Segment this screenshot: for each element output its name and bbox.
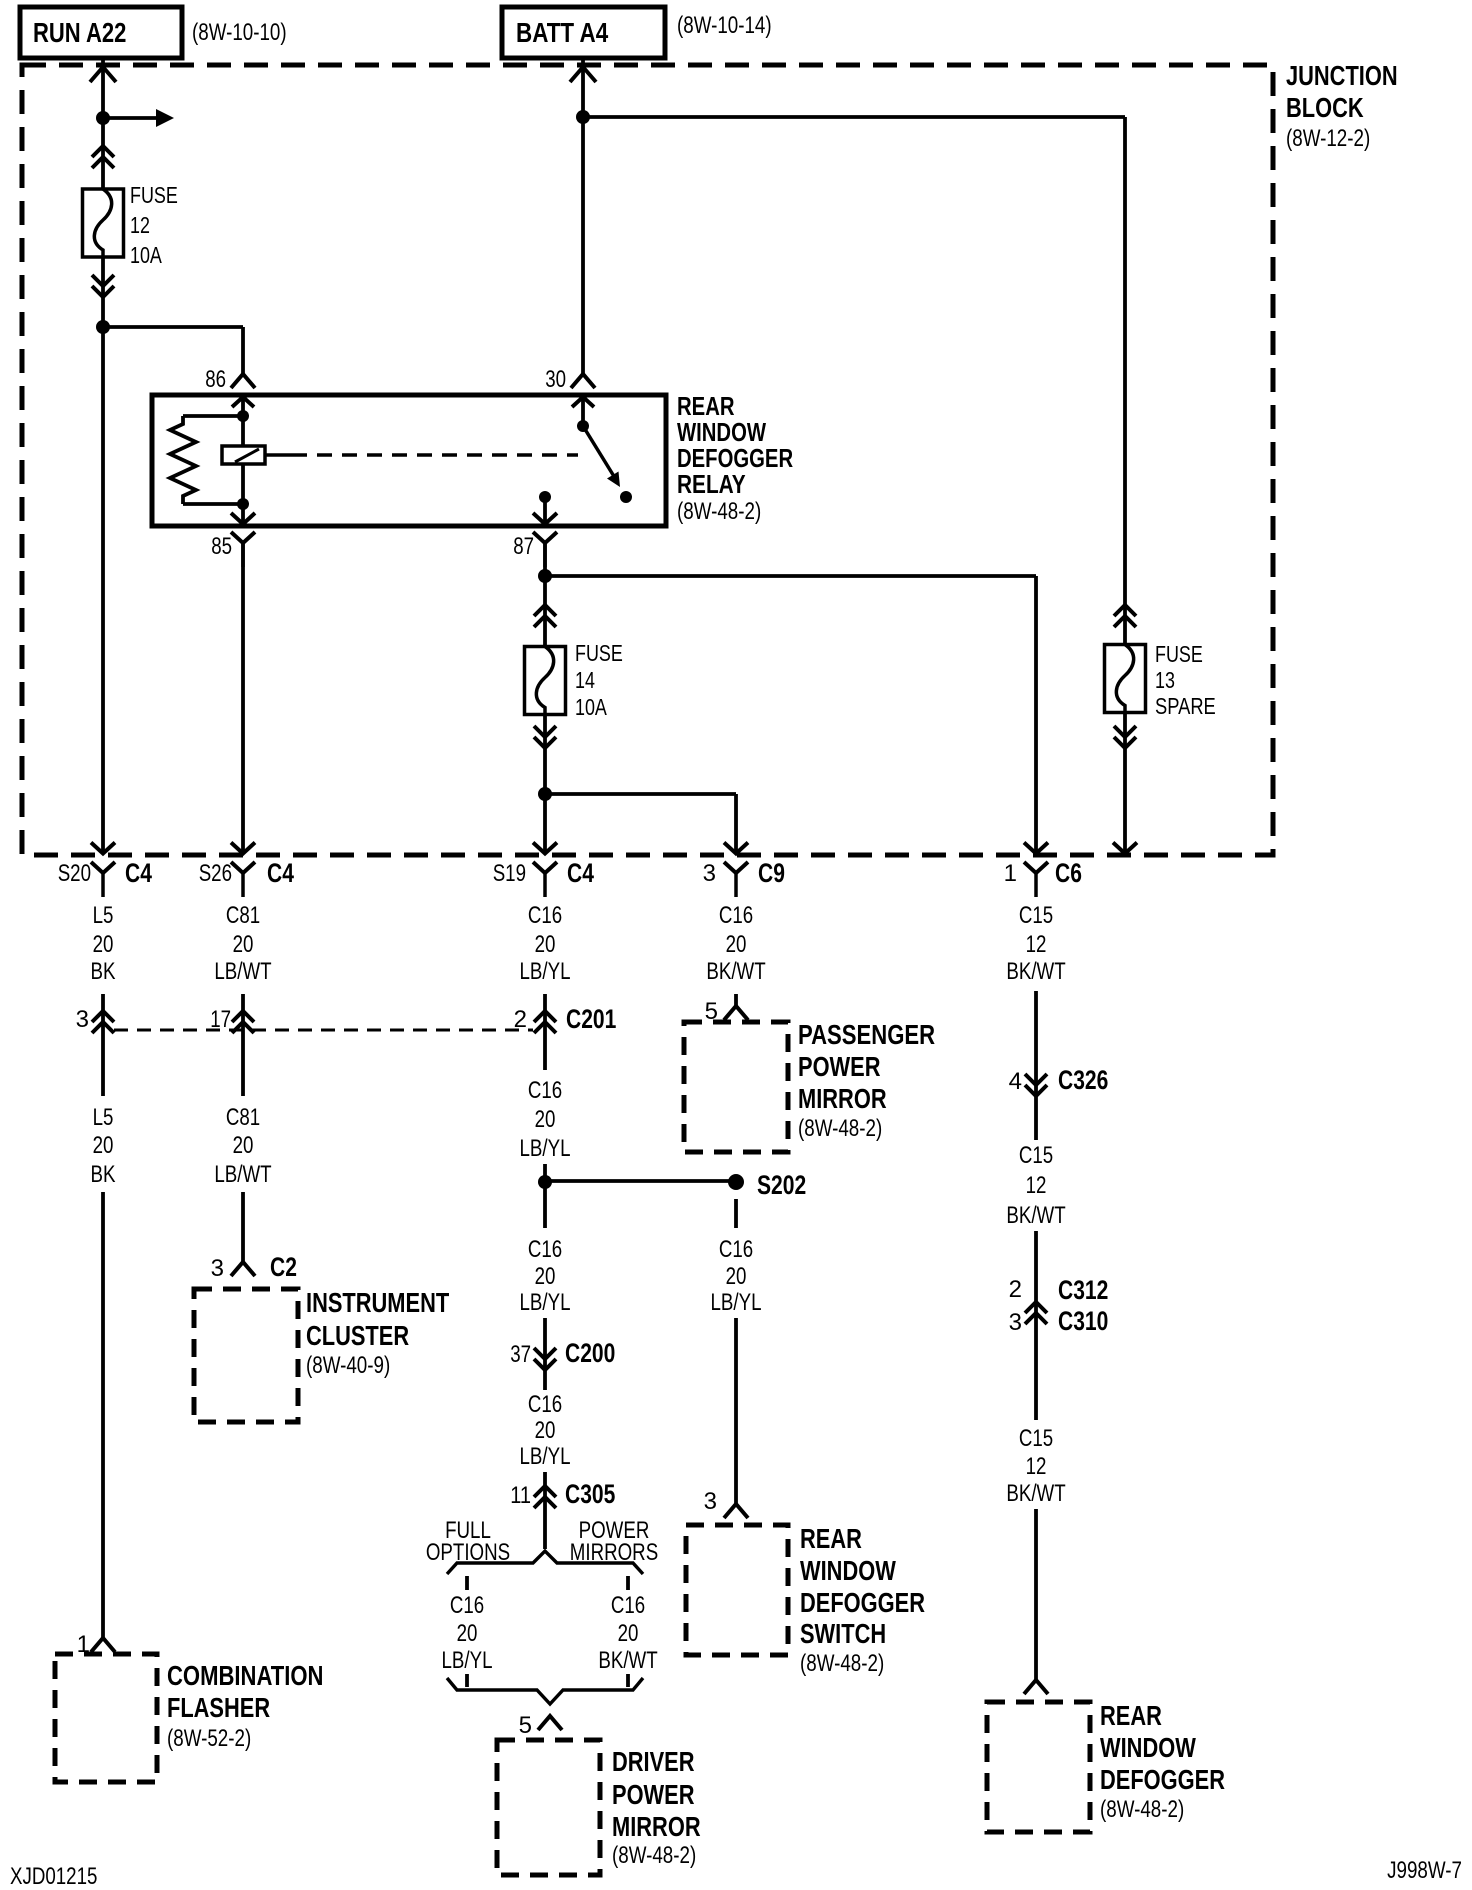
svg-text:12: 12 bbox=[1026, 1172, 1047, 1199]
svg-text:LB/WT: LB/WT bbox=[214, 1161, 271, 1188]
svg-text:3: 3 bbox=[1009, 1309, 1022, 1336]
svg-text:20: 20 bbox=[535, 1417, 556, 1444]
svg-text:87: 87 bbox=[513, 533, 534, 560]
svg-text:12: 12 bbox=[1026, 1453, 1047, 1480]
svg-text:REAR: REAR bbox=[1100, 1700, 1162, 1731]
svg-text:(8W-48-2): (8W-48-2) bbox=[612, 1842, 696, 1869]
svg-text:L5: L5 bbox=[93, 902, 114, 929]
svg-text:BATT A4: BATT A4 bbox=[516, 17, 609, 48]
svg-text:WINDOW: WINDOW bbox=[800, 1555, 896, 1586]
svg-text:14: 14 bbox=[575, 667, 595, 693]
svg-text:C15: C15 bbox=[1019, 902, 1053, 929]
svg-text:LB/YL: LB/YL bbox=[442, 1647, 493, 1674]
svg-text:86: 86 bbox=[205, 366, 226, 393]
svg-text:10A: 10A bbox=[130, 242, 162, 268]
svg-text:20: 20 bbox=[535, 931, 556, 958]
svg-text:(8W-10-10): (8W-10-10) bbox=[192, 19, 287, 46]
svg-text:FLASHER: FLASHER bbox=[167, 1692, 270, 1723]
svg-text:3: 3 bbox=[211, 1255, 224, 1282]
svg-text:20: 20 bbox=[726, 1263, 747, 1290]
svg-text:30: 30 bbox=[545, 366, 566, 393]
svg-text:3: 3 bbox=[76, 1006, 89, 1033]
svg-text:C4: C4 bbox=[567, 858, 594, 888]
svg-text:(8W-40-9): (8W-40-9) bbox=[306, 1352, 390, 1379]
svg-text:C305: C305 bbox=[565, 1479, 615, 1509]
svg-text:S20: S20 bbox=[58, 860, 91, 887]
svg-text:C4: C4 bbox=[125, 858, 152, 888]
svg-text:(8W-48-2): (8W-48-2) bbox=[800, 1650, 884, 1677]
svg-text:3: 3 bbox=[704, 1488, 717, 1515]
svg-text:12: 12 bbox=[130, 212, 150, 238]
svg-text:(8W-10-14): (8W-10-14) bbox=[677, 12, 772, 39]
svg-text:POWER: POWER bbox=[612, 1779, 695, 1810]
svg-text:SPARE: SPARE bbox=[1155, 693, 1216, 719]
svg-text:20: 20 bbox=[233, 1132, 254, 1159]
svg-text:LB/YL: LB/YL bbox=[520, 958, 571, 985]
svg-text:20: 20 bbox=[233, 931, 254, 958]
svg-text:10A: 10A bbox=[575, 694, 607, 720]
svg-text:S19: S19 bbox=[493, 860, 526, 887]
svg-text:20: 20 bbox=[618, 1620, 639, 1647]
svg-text:PASSENGER: PASSENGER bbox=[798, 1019, 935, 1050]
svg-text:BK: BK bbox=[91, 1161, 116, 1188]
svg-text:C16: C16 bbox=[528, 1236, 562, 1263]
svg-text:C16: C16 bbox=[528, 902, 562, 929]
svg-text:JUNCTION: JUNCTION bbox=[1286, 60, 1398, 91]
svg-text:C200: C200 bbox=[565, 1338, 615, 1368]
svg-text:20: 20 bbox=[535, 1263, 556, 1290]
svg-text:C310: C310 bbox=[1058, 1306, 1108, 1336]
svg-text:COMBINATION: COMBINATION bbox=[167, 1660, 324, 1691]
svg-text:S26: S26 bbox=[199, 860, 232, 887]
svg-text:20: 20 bbox=[93, 931, 114, 958]
svg-text:C2: C2 bbox=[270, 1252, 297, 1282]
svg-text:FUSE: FUSE bbox=[130, 182, 178, 208]
svg-text:37: 37 bbox=[510, 1341, 531, 1368]
svg-text:LB/YL: LB/YL bbox=[520, 1443, 571, 1470]
svg-text:C15: C15 bbox=[1019, 1142, 1053, 1169]
svg-text:(8W-48-2): (8W-48-2) bbox=[677, 498, 761, 525]
svg-text:C4: C4 bbox=[267, 858, 294, 888]
svg-text:C81: C81 bbox=[226, 902, 260, 929]
svg-text:FUSE: FUSE bbox=[575, 640, 623, 666]
svg-text:(8W-48-2): (8W-48-2) bbox=[1100, 1796, 1184, 1823]
svg-text:13: 13 bbox=[1155, 667, 1175, 693]
svg-text:BLOCK: BLOCK bbox=[1286, 92, 1364, 123]
svg-text:XJD01215: XJD01215 bbox=[10, 1863, 97, 1890]
svg-text:C312: C312 bbox=[1058, 1275, 1108, 1305]
svg-text:RUN A22: RUN A22 bbox=[33, 17, 126, 48]
svg-text:DRIVER: DRIVER bbox=[612, 1746, 695, 1777]
svg-text:BK: BK bbox=[91, 958, 116, 985]
svg-text:20: 20 bbox=[726, 931, 747, 958]
svg-text:12: 12 bbox=[1026, 931, 1047, 958]
svg-text:FUSE: FUSE bbox=[1155, 641, 1203, 667]
svg-text:BK/WT: BK/WT bbox=[598, 1647, 658, 1674]
svg-text:4: 4 bbox=[1009, 1068, 1022, 1095]
svg-text:17: 17 bbox=[210, 1006, 231, 1033]
svg-text:L5: L5 bbox=[93, 1104, 114, 1131]
svg-text:INSTRUMENT: INSTRUMENT bbox=[306, 1287, 449, 1318]
svg-text:POWER: POWER bbox=[798, 1051, 881, 1082]
svg-text:BK/WT: BK/WT bbox=[1006, 958, 1066, 985]
svg-text:BK/WT: BK/WT bbox=[706, 958, 766, 985]
svg-text:(8W-52-2): (8W-52-2) bbox=[167, 1725, 251, 1752]
svg-text:20: 20 bbox=[457, 1620, 478, 1647]
svg-text:MIRROR: MIRROR bbox=[798, 1083, 887, 1114]
svg-text:20: 20 bbox=[93, 1132, 114, 1159]
svg-text:CLUSTER: CLUSTER bbox=[306, 1320, 409, 1351]
svg-text:2: 2 bbox=[1009, 1276, 1022, 1303]
svg-text:REAR: REAR bbox=[800, 1523, 862, 1554]
svg-text:DEFOGGER: DEFOGGER bbox=[1100, 1764, 1225, 1795]
svg-text:LB/YL: LB/YL bbox=[520, 1289, 571, 1316]
svg-text:DEFOGGER: DEFOGGER bbox=[800, 1587, 925, 1618]
svg-text:C9: C9 bbox=[758, 858, 785, 888]
svg-text:C326: C326 bbox=[1058, 1065, 1108, 1095]
svg-text:(8W-12-2): (8W-12-2) bbox=[1286, 125, 1370, 152]
svg-text:C16: C16 bbox=[719, 902, 753, 929]
svg-text:LB/YL: LB/YL bbox=[711, 1289, 762, 1316]
svg-text:LB/WT: LB/WT bbox=[214, 958, 271, 985]
svg-text:MIRROR: MIRROR bbox=[612, 1811, 701, 1842]
svg-text:1: 1 bbox=[1004, 860, 1017, 887]
svg-text:3: 3 bbox=[703, 860, 716, 887]
svg-text:C16: C16 bbox=[719, 1236, 753, 1263]
svg-text:C6: C6 bbox=[1055, 858, 1082, 888]
svg-text:85: 85 bbox=[211, 533, 232, 560]
svg-text:C16: C16 bbox=[528, 1077, 562, 1104]
svg-text:C16: C16 bbox=[450, 1592, 484, 1619]
svg-text:S202: S202 bbox=[757, 1170, 806, 1200]
svg-text:5: 5 bbox=[519, 1712, 532, 1739]
svg-text:C16: C16 bbox=[528, 1391, 562, 1418]
svg-text:WINDOW: WINDOW bbox=[1100, 1732, 1196, 1763]
svg-text:RELAY: RELAY bbox=[677, 469, 746, 499]
svg-text:C16: C16 bbox=[611, 1592, 645, 1619]
svg-text:BK/WT: BK/WT bbox=[1006, 1480, 1066, 1507]
svg-text:J998W-7: J998W-7 bbox=[1387, 1857, 1462, 1884]
svg-text:BK/WT: BK/WT bbox=[1006, 1202, 1066, 1229]
svg-text:20: 20 bbox=[535, 1106, 556, 1133]
svg-text:C15: C15 bbox=[1019, 1425, 1053, 1452]
svg-text:11: 11 bbox=[510, 1482, 531, 1509]
svg-text:C81: C81 bbox=[226, 1104, 260, 1131]
svg-text:LB/YL: LB/YL bbox=[520, 1135, 571, 1162]
svg-text:(8W-48-2): (8W-48-2) bbox=[798, 1115, 882, 1142]
svg-text:C201: C201 bbox=[566, 1004, 616, 1034]
svg-text:SWITCH: SWITCH bbox=[800, 1618, 886, 1649]
svg-text:2: 2 bbox=[514, 1006, 527, 1033]
